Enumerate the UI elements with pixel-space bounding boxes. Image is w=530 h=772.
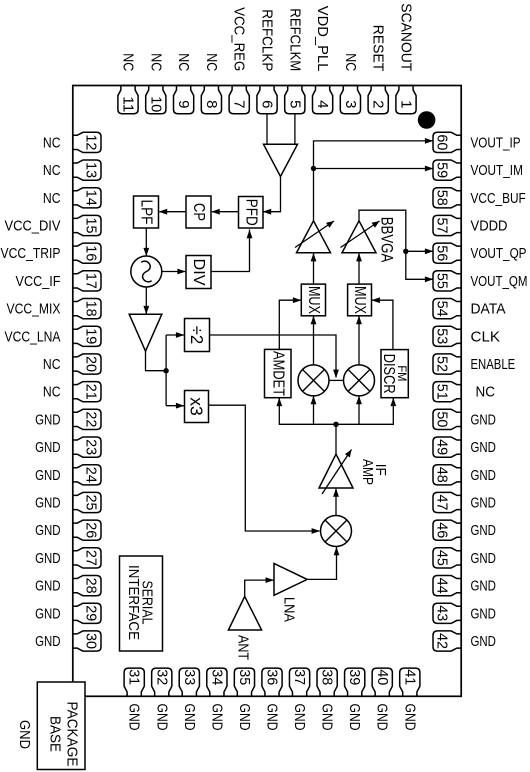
svg-text:GND: GND xyxy=(471,633,497,650)
svg-text:x3: x3 xyxy=(187,397,207,416)
svg-text:2: 2 xyxy=(370,100,387,108)
svg-text:VCC_LNA: VCC_LNA xyxy=(5,328,61,345)
svg-text:49: 49 xyxy=(434,439,451,455)
svg-text:GND: GND xyxy=(471,439,497,456)
svg-text:BBVGA: BBVGA xyxy=(378,217,396,263)
svg-text:GND: GND xyxy=(35,550,61,567)
svg-text:40: 40 xyxy=(374,669,391,685)
svg-text:VCC_REG: VCC_REG xyxy=(231,7,248,71)
svg-text:7: 7 xyxy=(231,100,248,108)
svg-text:GND: GND xyxy=(153,704,170,731)
svg-text:10: 10 xyxy=(147,96,164,112)
svg-text:GND: GND xyxy=(35,605,61,622)
svg-text:VDD_PLL: VDD_PLL xyxy=(314,6,331,72)
svg-text:45: 45 xyxy=(434,550,451,566)
svg-text:59: 59 xyxy=(434,162,451,178)
svg-text:REFCLKP: REFCLKP xyxy=(259,9,276,71)
svg-text:DATA: DATA xyxy=(471,301,506,318)
svg-text:SCANOUT: SCANOUT xyxy=(398,3,415,71)
svg-text:GND: GND xyxy=(471,411,497,428)
svg-text:39: 39 xyxy=(346,669,363,685)
svg-text:ANT: ANT xyxy=(235,635,252,660)
svg-text:51: 51 xyxy=(434,384,451,400)
svg-text:GND: GND xyxy=(35,439,61,456)
svg-text:RESET: RESET xyxy=(370,25,387,72)
svg-text:24: 24 xyxy=(83,467,100,483)
svg-text:58: 58 xyxy=(434,190,451,206)
svg-text:17: 17 xyxy=(83,273,100,289)
svg-text:LPF: LPF xyxy=(138,200,155,225)
svg-text:GND: GND xyxy=(471,495,497,512)
svg-text:CLK: CLK xyxy=(471,328,501,345)
svg-text:GND: GND xyxy=(471,467,497,484)
svg-text:BASE: BASE xyxy=(47,716,64,752)
svg-text:56: 56 xyxy=(434,245,451,261)
svg-text:8: 8 xyxy=(203,100,220,108)
svg-text:28: 28 xyxy=(83,578,100,594)
svg-text:50: 50 xyxy=(434,411,451,427)
svg-text:18: 18 xyxy=(83,301,100,317)
svg-text:19: 19 xyxy=(83,328,100,344)
svg-text:CP: CP xyxy=(190,203,207,221)
svg-text:GND: GND xyxy=(35,633,61,650)
svg-text:VCC_IF: VCC_IF xyxy=(16,273,61,290)
svg-text:60: 60 xyxy=(434,134,451,150)
svg-text:33: 33 xyxy=(181,669,198,685)
svg-text:25: 25 xyxy=(83,495,100,511)
svg-text:27: 27 xyxy=(83,550,100,566)
svg-text:VOUT_IP: VOUT_IP xyxy=(471,134,521,151)
svg-text:VDDD: VDDD xyxy=(471,218,508,235)
svg-text:GND: GND xyxy=(471,578,497,595)
svg-text:GND: GND xyxy=(471,522,497,539)
svg-text:54: 54 xyxy=(434,301,451,317)
svg-text:ENABLE: ENABLE xyxy=(471,356,516,373)
svg-text:36: 36 xyxy=(264,669,281,685)
svg-text:GND: GND xyxy=(35,411,61,428)
svg-text:GND: GND xyxy=(401,704,418,731)
svg-text:21: 21 xyxy=(83,384,100,400)
svg-text:GND: GND xyxy=(35,578,61,595)
svg-text:5: 5 xyxy=(286,100,303,108)
svg-text:GND: GND xyxy=(346,704,363,731)
svg-text:MUX: MUX xyxy=(305,286,322,314)
svg-text:52: 52 xyxy=(434,356,451,372)
svg-text:31: 31 xyxy=(126,669,143,685)
svg-text:VCC_TRIP: VCC_TRIP xyxy=(1,245,61,262)
svg-text:23: 23 xyxy=(83,439,100,455)
svg-text:6: 6 xyxy=(259,100,276,108)
svg-text:GND: GND xyxy=(319,704,336,731)
svg-text:PFD: PFD xyxy=(242,199,259,226)
svg-text:GND: GND xyxy=(291,704,308,731)
svg-text:NC: NC xyxy=(43,356,61,373)
svg-text:32: 32 xyxy=(153,669,170,685)
svg-text:÷2: ÷2 xyxy=(187,326,207,345)
svg-text:DISCR: DISCR xyxy=(380,354,397,394)
svg-text:1: 1 xyxy=(398,100,415,108)
svg-text:38: 38 xyxy=(319,669,336,685)
svg-text:22: 22 xyxy=(83,411,100,427)
svg-text:4: 4 xyxy=(314,100,331,108)
svg-text:PACKAGE: PACKAGE xyxy=(64,702,81,767)
svg-text:48: 48 xyxy=(434,467,451,483)
svg-text:NC: NC xyxy=(147,53,164,71)
svg-text:NC: NC xyxy=(43,190,61,207)
svg-text:LNA: LNA xyxy=(281,597,298,622)
svg-text:GND: GND xyxy=(264,704,281,731)
svg-text:INTERFACE: INTERFACE xyxy=(125,565,142,640)
svg-text:37: 37 xyxy=(291,669,308,685)
svg-text:VOUT_IM: VOUT_IM xyxy=(471,162,523,179)
svg-text:GND: GND xyxy=(35,467,61,484)
svg-text:AMDET: AMDET xyxy=(269,351,286,396)
svg-text:REFCLKM: REFCLKM xyxy=(286,8,303,71)
svg-text:14: 14 xyxy=(83,190,100,206)
svg-text:55: 55 xyxy=(434,273,451,289)
svg-text:57: 57 xyxy=(434,218,451,234)
svg-text:NC: NC xyxy=(43,384,61,401)
svg-text:13: 13 xyxy=(83,162,100,178)
svg-text:20: 20 xyxy=(83,356,100,372)
svg-text:53: 53 xyxy=(434,328,451,344)
svg-text:GND: GND xyxy=(208,704,225,731)
svg-text:GND: GND xyxy=(471,605,497,622)
svg-text:NC: NC xyxy=(476,384,496,401)
svg-text:30: 30 xyxy=(83,633,100,649)
svg-text:NC: NC xyxy=(203,53,220,71)
svg-text:47: 47 xyxy=(434,495,451,511)
svg-text:41: 41 xyxy=(401,669,418,685)
svg-text:43: 43 xyxy=(434,605,451,621)
svg-text:15: 15 xyxy=(83,218,100,234)
svg-text:GND: GND xyxy=(374,704,391,731)
svg-text:DIV: DIV xyxy=(190,259,207,286)
svg-text:GND: GND xyxy=(181,704,198,731)
svg-text:26: 26 xyxy=(83,522,100,538)
svg-text:NC: NC xyxy=(120,53,137,71)
svg-text:GND: GND xyxy=(236,704,253,731)
svg-text:44: 44 xyxy=(434,578,451,594)
svg-text:34: 34 xyxy=(208,669,225,685)
svg-text:9: 9 xyxy=(175,100,192,108)
svg-text:NC: NC xyxy=(43,162,61,179)
svg-text:GND: GND xyxy=(35,522,61,539)
svg-text:NC: NC xyxy=(43,134,61,151)
svg-text:AMP: AMP xyxy=(359,459,376,485)
svg-text:GND: GND xyxy=(16,720,33,749)
svg-text:GND: GND xyxy=(126,704,143,731)
svg-text:46: 46 xyxy=(434,522,451,538)
svg-text:GND: GND xyxy=(35,495,61,512)
svg-text:11: 11 xyxy=(120,96,137,112)
svg-text:VOUT_QM: VOUT_QM xyxy=(471,273,528,290)
svg-text:42: 42 xyxy=(434,633,451,649)
svg-text:GND: GND xyxy=(471,550,497,567)
svg-text:MUX: MUX xyxy=(351,286,368,314)
svg-text:NC: NC xyxy=(175,53,192,71)
svg-text:VCC_MIX: VCC_MIX xyxy=(7,301,61,318)
svg-text:NC: NC xyxy=(342,53,359,71)
svg-text:VOUT_QP: VOUT_QP xyxy=(471,245,527,262)
svg-text:VCC_BUF: VCC_BUF xyxy=(471,190,526,207)
svg-text:29: 29 xyxy=(83,605,100,621)
svg-text:35: 35 xyxy=(236,669,253,685)
svg-text:VCC_DIV: VCC_DIV xyxy=(5,218,61,235)
svg-text:12: 12 xyxy=(83,134,100,150)
svg-text:3: 3 xyxy=(342,100,359,108)
svg-text:16: 16 xyxy=(82,245,99,261)
